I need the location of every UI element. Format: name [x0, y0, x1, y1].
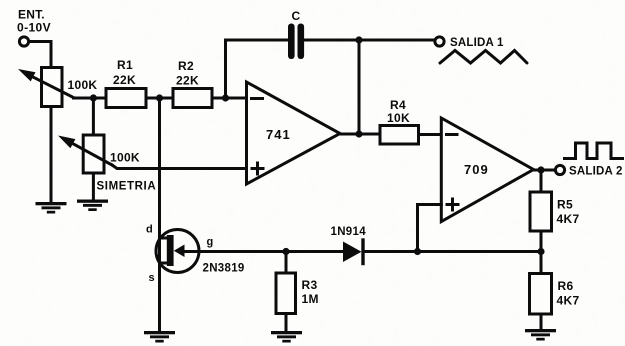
node I junction	[414, 248, 421, 255]
label 100K P1	[68, 78, 98, 92]
svg-text:709: 709	[464, 162, 489, 177]
wire R5 to node G	[540, 231, 543, 252]
svg-text:100K: 100K	[68, 78, 98, 92]
label R3 1M	[302, 278, 319, 306]
wire node F down to R5	[540, 170, 543, 192]
potentiometer P2 wiper arrow	[58, 136, 112, 166]
svg-text:2N3819: 2N3819	[203, 263, 245, 275]
label 1N914	[331, 226, 367, 238]
label C	[292, 9, 301, 23]
svg-text:R1: R1	[117, 58, 133, 72]
svg-text:SIMETRIA: SIMETRIA	[97, 181, 157, 193]
svg-text:R6: R6	[558, 279, 574, 293]
wire R6 to ground	[540, 314, 543, 329]
label SALIDA 1	[450, 37, 504, 49]
svg-text:SALIDA 1: SALIDA 1	[450, 37, 504, 49]
wire feedback node C up and right to capacitor	[226, 40, 289, 98]
label SIMETRIA	[97, 181, 157, 193]
svg-text:10K: 10K	[387, 111, 410, 125]
wire node A down to P2	[92, 98, 95, 135]
svg-text:s: s	[149, 272, 155, 284]
label R1 22K	[113, 58, 136, 87]
svg-text:1N914: 1N914	[331, 226, 367, 238]
svg-text:100K: 100K	[110, 151, 140, 165]
wire drain line from node B down through transistor to ground	[158, 98, 161, 331]
terminal SALIDA 1	[435, 37, 444, 46]
label R2 22K	[176, 59, 199, 88]
resistor R4	[380, 126, 419, 145]
wire node D down to U1 output node	[358, 40, 361, 134]
resistor R3	[276, 273, 296, 314]
potentiometer P1 wiper arrow	[18, 69, 74, 98]
node C junction	[222, 94, 229, 101]
potentiometer P1 body	[42, 68, 63, 107]
terminal ENT input	[19, 37, 28, 46]
capacitor C	[288, 24, 304, 60]
svg-text:1M: 1M	[302, 292, 319, 306]
label R5 4K7	[557, 198, 580, 227]
wire R2 to op-amp U1 inverting input	[212, 97, 247, 100]
wire node G to R6	[540, 252, 543, 274]
op-amp U2 709	[441, 118, 533, 222]
label R4 10K	[387, 98, 410, 125]
svg-text:SALIDA 2: SALIDA 2	[569, 166, 623, 178]
svg-text:R5: R5	[557, 198, 573, 212]
diode D1 1N914	[343, 240, 363, 264]
svg-text:0-10V: 0-10V	[17, 21, 51, 35]
svg-text:R3: R3	[302, 278, 318, 292]
label 709	[464, 162, 489, 177]
svg-text:22K: 22K	[176, 74, 199, 88]
wire R3 to ground	[285, 314, 288, 332]
wire P1 bottom to ground	[50, 107, 53, 203]
wire node I up to U2 non-inverting input	[418, 205, 442, 252]
label 741	[266, 127, 291, 142]
wire R1 to R2	[146, 97, 173, 100]
label 100K P2	[110, 151, 140, 165]
svg-text:g: g	[207, 236, 214, 248]
ground under P1	[36, 202, 67, 214]
label 2N3819	[203, 263, 245, 275]
wire P2 wiper to U1 non-inverting input	[112, 165, 247, 169]
wire diode to node G	[365, 250, 542, 253]
ground under R3	[271, 331, 302, 343]
potentiometer P2 body SIMETRIA	[83, 135, 104, 173]
wire capacitor to SALIDA 1	[304, 39, 435, 42]
resistor R5	[530, 192, 552, 231]
resistor R6	[530, 274, 552, 315]
terminal SALIDA 2	[555, 165, 564, 174]
svg-text:4K7: 4K7	[557, 212, 580, 226]
svg-text:ENT.: ENT.	[18, 8, 45, 22]
square wave symbol	[565, 143, 623, 159]
label ENT. 0-10V	[17, 8, 51, 35]
svg-text:R2: R2	[178, 59, 194, 73]
wire node H to R3	[285, 252, 288, 274]
resistor R2	[173, 89, 212, 108]
wire gate line from Q1 to diode	[181, 250, 344, 253]
ground under Q1	[144, 331, 175, 343]
node F junction U2 output	[537, 166, 544, 173]
svg-text:4K7: 4K7	[557, 294, 580, 308]
wire P1 wiper to R1	[74, 97, 107, 100]
wire U1 output to R4	[340, 133, 380, 136]
node D junction	[355, 36, 362, 43]
wire input terminal to potentiometer P1	[29, 42, 51, 69]
label R6 4K7	[557, 279, 580, 308]
triangle wave symbol	[440, 51, 527, 64]
svg-text:C: C	[292, 9, 301, 23]
svg-text:d: d	[146, 224, 153, 236]
label SALIDA 2	[569, 166, 623, 178]
node H junction	[282, 248, 289, 255]
wire P2 bottom to ground	[92, 173, 95, 200]
label s pin	[149, 272, 155, 284]
node E junction U1 output	[355, 130, 362, 137]
node B junction	[156, 94, 163, 101]
wire R4 to op-amp U2 inverting input	[419, 133, 442, 136]
op-amp U1 741	[247, 82, 341, 184]
wire U2 output to SALIDA 2	[534, 169, 556, 172]
label d pin	[146, 224, 153, 236]
svg-text:R4: R4	[390, 98, 406, 112]
svg-text:22K: 22K	[113, 73, 136, 87]
label g pin	[207, 236, 214, 248]
svg-text:741: 741	[266, 127, 291, 142]
node G junction	[537, 248, 544, 255]
resistor R1	[106, 89, 146, 108]
ground under P2	[77, 200, 108, 212]
ground under R6	[525, 329, 556, 341]
transistor Q1 2N3819	[156, 230, 199, 273]
node A junction	[90, 94, 97, 101]
